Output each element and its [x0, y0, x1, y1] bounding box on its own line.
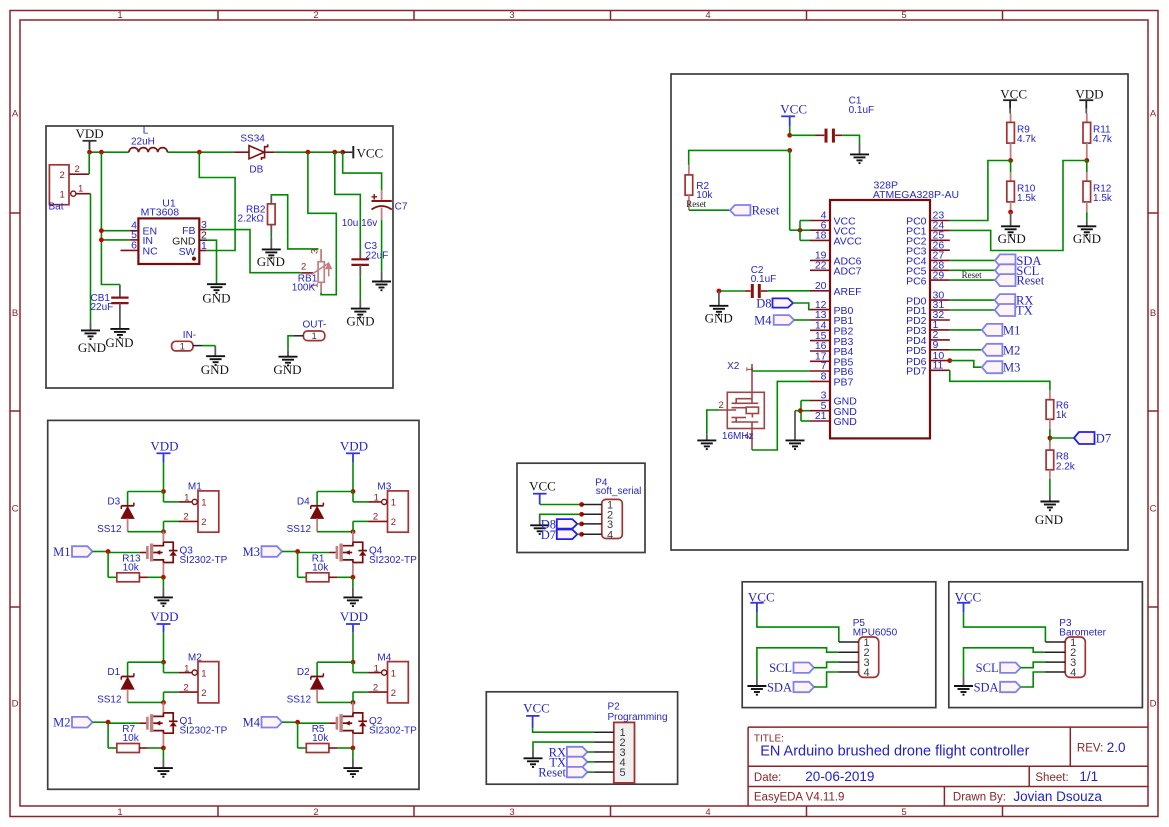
U1 pin 3 FB: [199, 229, 206, 231]
svg-text:IN-: IN-: [183, 330, 196, 341]
svg-text:AVCC: AVCC: [834, 236, 863, 248]
svg-text:VCC: VCC: [523, 700, 550, 715]
svg-text:10k: 10k: [123, 733, 140, 744]
wire SCL to pin3: [1021, 662, 1045, 668]
junction: [161, 660, 166, 665]
port OUT-: [303, 331, 324, 341]
title block: [748, 727, 1148, 806]
ground (C3): [351, 309, 370, 318]
wire VDD to U1 EN/IN and CB1: [101, 152, 120, 284]
wire gate of Q1: [140, 722, 147, 724]
svg-text:D: D: [12, 699, 19, 710]
wire gate of Q4: [329, 552, 336, 554]
svg-text:M1: M1: [188, 482, 202, 493]
svg-text:ADC7: ADC7: [834, 266, 862, 278]
U2 pin 18 AVCC: [810, 239, 830, 241]
port RX (P2): [567, 747, 588, 757]
wire VCC to R2: [787, 148, 792, 153]
svg-text:2: 2: [183, 682, 188, 693]
connector P3: [1065, 637, 1085, 677]
port RX: [950, 299, 995, 301]
U2 pin 32 PD2: [930, 319, 950, 321]
wire gate of Q2: [329, 722, 336, 724]
svg-text:5: 5: [901, 807, 906, 818]
svg-text:ATMEGA328P-AU: ATMEGA328P-AU: [873, 189, 959, 201]
svg-text:22: 22: [815, 260, 827, 272]
M1 pin 2: [179, 520, 198, 522]
connector M2 (motor): [198, 662, 219, 703]
port SCL (P3): [1000, 663, 1021, 673]
svg-text:4: 4: [864, 667, 870, 679]
svg-text:2.2kΩ: 2.2kΩ: [238, 214, 265, 225]
P2 section box: [486, 692, 677, 784]
svg-text:SI2302-TP: SI2302-TP: [369, 726, 417, 737]
U2 pin 10 PD6: [930, 360, 950, 362]
svg-text:2: 2: [301, 262, 306, 273]
svg-text:M1: M1: [53, 545, 70, 559]
svg-text:SW: SW: [179, 246, 196, 258]
ground (Bat): [81, 330, 100, 339]
wire X2 pin1 to PB6: [752, 370, 810, 372]
U2 pin 30 PD0: [930, 299, 950, 301]
port D8: [773, 298, 794, 307]
resistor R2 10k: [688, 165, 690, 175]
svg-text:EN Arduino brushed drone fligh: EN Arduino brushed drone flight controll…: [760, 744, 1029, 760]
svg-text:D7: D7: [541, 528, 556, 542]
svg-text:B: B: [1150, 308, 1156, 319]
resistor R8 2.2k: [1049, 438, 1051, 442]
ground (X2): [697, 440, 716, 449]
ground (CB1): [110, 329, 129, 338]
U1 pin 1 SW: [199, 250, 206, 252]
svg-text:M2: M2: [1003, 343, 1020, 357]
U2 pin 9 PD5: [930, 349, 950, 351]
U1 pin 2 GND: [199, 239, 207, 241]
svg-text:Date:: Date:: [754, 772, 782, 784]
svg-text:Reset: Reset: [1016, 274, 1044, 288]
svg-text:VDD: VDD: [340, 438, 368, 453]
source lead of Q4: [352, 563, 354, 577]
port M3 (MCU): [947, 358, 952, 363]
M2 pin 2: [179, 691, 198, 693]
U2 pin 26 PC3: [930, 249, 950, 251]
wire gnd to P4 pin2: [540, 514, 582, 516]
svg-text:22uH: 22uH: [131, 137, 155, 148]
svg-text:SI2302-TP: SI2302-TP: [369, 555, 417, 566]
svg-text:L: L: [143, 126, 149, 137]
svg-text:Programming: Programming: [608, 712, 668, 723]
ground (U2 gnd pins): [786, 440, 805, 449]
svg-text:P2: P2: [608, 702, 621, 713]
resistor RB2 2.2k: [270, 195, 272, 204]
svg-text:1: 1: [184, 663, 189, 674]
wire SDA to pin4: [814, 672, 838, 687]
svg-text:GND: GND: [257, 254, 285, 269]
svg-text:GND: GND: [1073, 231, 1101, 246]
svg-text:20-06-2019: 20-06-2019: [805, 769, 874, 784]
U2 pin 6 VCC: [810, 229, 830, 231]
wire SDA to pin4: [1021, 672, 1045, 687]
U2 pin 13 PB1: [810, 319, 830, 321]
capacitor C1 0.1uF: [790, 134, 815, 136]
svg-text:20: 20: [815, 280, 827, 292]
svg-text:3: 3: [509, 807, 514, 818]
connector P2: [614, 722, 635, 783]
svg-text:4: 4: [607, 529, 613, 541]
svg-text:5: 5: [901, 10, 906, 21]
svg-text:2: 2: [313, 807, 318, 818]
svg-text:2: 2: [183, 512, 188, 523]
U2 pin 28 PC5: [930, 269, 950, 271]
svg-text:Reset: Reset: [752, 204, 780, 218]
svg-text:100K: 100K: [292, 283, 316, 294]
ground (R8): [1040, 502, 1059, 511]
port Reset (P2): [567, 767, 588, 777]
svg-text:2: 2: [391, 688, 396, 699]
wire gnd to P2 pin2: [533, 742, 594, 748]
diode D2 SS12: [317, 661, 353, 663]
wire VCC to P3 pin1: [964, 613, 1046, 642]
svg-text:SS12: SS12: [97, 695, 122, 706]
U2 pin 11 PD7: [930, 369, 950, 371]
port M3 (input): [262, 546, 283, 557]
U2 pin 2 PD4: [930, 339, 950, 341]
port M4 (input): [262, 717, 283, 728]
ground (R10): [1001, 226, 1020, 235]
wire FB to RB1 wiper: [206, 230, 301, 273]
source lead of Q2: [352, 734, 354, 748]
svg-text:2: 2: [373, 682, 378, 693]
svg-text:16MHz: 16MHz: [722, 431, 754, 442]
svg-text:6: 6: [131, 240, 137, 252]
svg-text:Jovian Dsouza: Jovian Dsouza: [1013, 789, 1102, 804]
source lead of Q3: [162, 563, 164, 577]
power supply section box: [46, 126, 393, 388]
ground (P5): [747, 686, 766, 695]
transistor Q2 SI2302-TP: [352, 702, 354, 713]
svg-text:3: 3: [509, 10, 514, 21]
ground (P4): [530, 525, 549, 534]
M3 pin 2: [368, 520, 387, 522]
svg-text:4.7k: 4.7k: [1093, 134, 1113, 145]
resistor R11 4.7k: [1083, 122, 1091, 143]
ground (Q2): [343, 768, 362, 777]
svg-text:SS34: SS34: [240, 134, 265, 145]
svg-text:GND: GND: [998, 231, 1026, 246]
wire VDD down: [352, 462, 354, 492]
wire R9/R10 node to PC0: [950, 161, 1011, 221]
svg-text:1: 1: [374, 493, 379, 504]
svg-text:GND: GND: [78, 340, 106, 355]
svg-text:8: 8: [821, 371, 827, 383]
port IN-: [172, 341, 193, 351]
svg-text:0.1uF: 0.1uF: [849, 105, 875, 116]
ground (Q1): [154, 768, 173, 777]
wire gate of Q3: [140, 552, 147, 554]
svg-text:A: A: [1150, 109, 1157, 120]
connector Bat: [49, 165, 69, 205]
svg-text:OUT-: OUT-: [303, 320, 327, 331]
svg-text:MPU6050: MPU6050: [853, 628, 898, 639]
svg-text:VDD: VDD: [340, 609, 368, 624]
svg-text:SI2302-TP: SI2302-TP: [180, 555, 228, 566]
svg-text:REV:: REV:: [1077, 743, 1103, 755]
wire VCC rail down to chip: [789, 150, 791, 230]
svg-text:1k: 1k: [1056, 410, 1068, 421]
wire port to gate junction: [282, 721, 298, 723]
wire Bat pin2 to VDD rail: [88, 152, 90, 174]
svg-text:Reset: Reset: [538, 766, 566, 780]
wire RB2 top to RB1 pin3: [271, 195, 318, 249]
svg-text:SCL: SCL: [976, 661, 999, 675]
U2 pin 16 PB4: [810, 350, 830, 352]
port D7 (MCU): [1050, 437, 1074, 439]
junction source: [351, 746, 356, 751]
svg-text:Drawn By:: Drawn By:: [953, 792, 1006, 804]
U2 pin 29 PC6: [930, 279, 950, 281]
resistor R10 1.5k: [1010, 161, 1012, 173]
svg-text:1: 1: [180, 341, 185, 352]
svg-text:M1: M1: [1003, 323, 1020, 337]
svg-text:VCC: VCC: [1000, 86, 1027, 101]
svg-text:D: D: [1150, 699, 1157, 710]
svg-text:1: 1: [117, 10, 122, 21]
net flag VCC (R9): [1003, 100, 1017, 109]
svg-text:1: 1: [201, 498, 206, 509]
M3 pin 1: [352, 492, 354, 502]
connector M1 (motor): [198, 491, 219, 532]
svg-text:M4: M4: [754, 314, 772, 328]
U2 pin 23 PC0: [930, 220, 950, 222]
U2 pin 25 PC2: [930, 239, 950, 241]
U2 pin 4 VCC: [810, 220, 830, 222]
svg-text:1: 1: [117, 807, 122, 818]
svg-text:NC: NC: [143, 246, 159, 258]
svg-text:A: A: [12, 109, 19, 120]
wire SCL to pin3: [814, 662, 838, 668]
svg-text:VCC: VCC: [780, 102, 807, 117]
wire D7 to pin4: [577, 533, 581, 535]
port TX (P2): [567, 757, 588, 767]
P3 section box: [949, 582, 1143, 708]
junction: [351, 489, 356, 494]
svg-text:Sheet:: Sheet:: [1035, 772, 1068, 784]
svg-text:2: 2: [75, 164, 80, 175]
svg-text:SS12: SS12: [287, 524, 312, 535]
connector P4: [602, 499, 623, 538]
diode D3 SS12: [128, 491, 164, 493]
capacitor CB1 22uF: [119, 285, 121, 298]
svg-text:2: 2: [201, 688, 206, 699]
svg-text:SS12: SS12: [287, 695, 312, 706]
wire RB1 bottom to rail: [308, 152, 336, 295]
svg-text:Bat: Bat: [49, 202, 64, 213]
diode D1 SS12: [128, 661, 164, 663]
port M2 (input): [72, 717, 93, 728]
wire VCC to P2 pin1: [533, 728, 595, 732]
wire R11/R12 node to PC1: [950, 161, 1087, 251]
U2 pin 1 PD3: [930, 329, 950, 331]
svg-text:VDD: VDD: [150, 438, 178, 453]
svg-text:Barometer: Barometer: [1059, 628, 1106, 639]
wire source to ground: [162, 577, 164, 588]
wire X2 pin3 to PB7: [752, 381, 810, 450]
wire D8 to pin3: [577, 523, 581, 525]
wire source to ground: [352, 577, 354, 588]
svg-text:M3: M3: [1003, 361, 1020, 375]
M4 pin 1: [352, 662, 354, 672]
svg-text:GND: GND: [201, 362, 229, 377]
M1 pin 1: [163, 492, 165, 502]
svg-text:MT3608: MT3608: [141, 207, 180, 219]
svg-text:SI2302-TP: SI2302-TP: [180, 726, 228, 737]
svg-text:22uF: 22uF: [91, 302, 114, 313]
port Reset: [730, 205, 751, 215]
resistor R7 10k: [107, 722, 109, 748]
junction source: [351, 575, 356, 580]
svg-text:C7: C7: [395, 202, 408, 213]
svg-text:1: 1: [201, 668, 206, 679]
port TX: [950, 309, 995, 311]
ground (RB2): [262, 249, 281, 258]
wire diode anode to junction2: [317, 531, 353, 533]
wire diode anode to junction2: [317, 701, 353, 703]
trimmer RB1 100K: [320, 249, 322, 262]
wire VDD rail: [90, 151, 129, 153]
U2 pin 7 PB6: [810, 370, 830, 372]
wire SW to rail junction: [199, 152, 235, 250]
port SDA (P5): [794, 682, 815, 692]
wire diode anode to junction2: [128, 531, 164, 533]
net flag VCC (power out): [352, 146, 354, 158]
wire D8 to PB0: [793, 303, 810, 310]
svg-text:1/1: 1/1: [1079, 769, 1098, 784]
svg-text:C: C: [12, 504, 19, 515]
svg-text:2: 2: [60, 170, 65, 181]
svg-text:M4: M4: [243, 716, 261, 730]
svg-text:AREF: AREF: [834, 286, 862, 298]
inductor L1 22uH: [129, 148, 168, 153]
svg-text:2: 2: [313, 10, 318, 21]
resistor R6 1k: [1049, 390, 1051, 400]
svg-text:GND: GND: [346, 314, 374, 329]
gnd lead: [90, 323, 92, 331]
port D8 (P4): [557, 519, 578, 529]
U2 pin 8 PB7: [810, 380, 830, 382]
ground (P3): [954, 686, 973, 695]
svg-text:0.1uF: 0.1uF: [751, 274, 777, 285]
U2 pin 12 PB0: [810, 309, 830, 311]
svg-text:EasyEDA V4.11.9: EasyEDA V4.11.9: [754, 792, 845, 804]
svg-text:29: 29: [933, 269, 945, 281]
U2 pin 5 GND: [810, 410, 830, 412]
P5 section box: [742, 582, 936, 708]
svg-text:SCL: SCL: [769, 661, 792, 675]
svg-text:1.5k: 1.5k: [1017, 193, 1037, 204]
wire VCC to P5 pin1: [757, 613, 839, 642]
svg-text:SDA: SDA: [974, 681, 999, 695]
svg-text:VCC: VCC: [529, 478, 556, 493]
wire VCC to pins 4/6/18: [790, 229, 810, 231]
connector M4 (motor): [388, 662, 409, 703]
svg-text:PB7: PB7: [834, 377, 854, 389]
wire VCC down: [789, 126, 791, 135]
U2 pin 31 PD1: [930, 309, 950, 311]
svg-text:1: 1: [391, 668, 396, 679]
svg-text:M2: M2: [188, 652, 202, 663]
wire diode anode to junction2: [128, 701, 164, 703]
resistor R5 10k: [297, 722, 299, 748]
wire port to gate junction: [282, 551, 298, 553]
svg-text:soft_serial: soft_serial: [596, 486, 642, 497]
port SCL (MCU): [950, 269, 995, 271]
ground (C1): [850, 154, 869, 163]
svg-text:22uF: 22uF: [366, 251, 389, 262]
svg-text:2: 2: [373, 512, 378, 523]
svg-text:GND: GND: [202, 291, 230, 306]
svg-text:D1: D1: [107, 667, 120, 678]
svg-text:2.2k: 2.2k: [1056, 462, 1076, 473]
U2 pin 22 ADC7: [810, 269, 830, 271]
svg-text:1: 1: [78, 183, 83, 194]
svg-text:M2: M2: [53, 716, 70, 730]
svg-text:D4: D4: [297, 496, 310, 507]
motor drivers section box: [48, 420, 419, 789]
svg-text:1: 1: [311, 331, 316, 342]
ground (C2): [709, 306, 728, 315]
transistor Q3 SI2302-TP: [162, 532, 164, 543]
junction dots on rail: [87, 150, 92, 155]
MCU section box: [671, 74, 1128, 550]
svg-text:B: B: [12, 308, 18, 319]
wire R2 to Reset flag: [689, 209, 730, 211]
ground (P2): [524, 758, 543, 767]
wire M4 to PB1: [794, 319, 810, 321]
svg-text:10k: 10k: [312, 733, 329, 744]
U1 pin 4 EN: [130, 230, 139, 232]
port D7 (P4): [557, 530, 578, 540]
chip U2 ATMEGA328P-AU: [830, 200, 930, 438]
svg-text:GND: GND: [834, 416, 858, 428]
ground (Q4): [343, 597, 362, 606]
ground (R12): [1077, 226, 1096, 235]
wire source to ground: [352, 748, 354, 759]
M2 pin 1: [163, 662, 165, 672]
M4 pin 2: [368, 691, 387, 693]
port Reset (MCU): [950, 279, 995, 281]
svg-text:1.5k: 1.5k: [1093, 193, 1113, 204]
wire VDD down: [163, 633, 165, 663]
svg-text:GND: GND: [105, 335, 133, 350]
svg-text:1: 1: [391, 498, 396, 509]
transistor Q4 SI2302-TP: [352, 532, 354, 543]
svg-text:D8: D8: [756, 297, 771, 311]
svg-text:X2: X2: [727, 361, 740, 372]
resistor R1 10k: [297, 552, 299, 578]
capacitor C3 22uF: [335, 152, 361, 251]
svg-text:2: 2: [201, 517, 206, 528]
ground (IN-): [206, 356, 225, 365]
ground (Q3): [154, 597, 173, 606]
svg-text:10k: 10k: [123, 563, 140, 574]
wire Bat pin1 to GND: [90, 194, 92, 323]
resistor R12 1.5k: [1086, 161, 1088, 173]
svg-text:GND: GND: [705, 311, 733, 326]
svg-text:4.7k: 4.7k: [1017, 134, 1037, 145]
U1 pin 5 IN: [130, 239, 139, 241]
svg-text:M4: M4: [377, 652, 391, 663]
U2 pin 3 GND: [810, 400, 830, 402]
